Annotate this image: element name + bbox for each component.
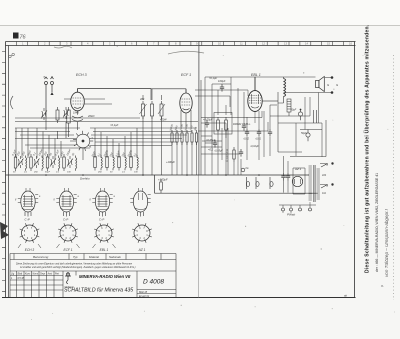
pin wires ECH 3 [18, 244, 41, 248]
wire AVC line 2 [15, 121, 198, 123]
terminal voltage tap 1 [282, 208, 285, 211]
svg-text:≈0,05μF: ≈0,05μF [206, 138, 216, 142]
coil IF [101, 155, 102, 170]
wire B plus rails [270, 93, 322, 158]
svg-text:20kΩ: 20kΩ [87, 114, 94, 118]
resistor bracket box [214, 113, 232, 135]
wire ECH3 anode to IFT [78, 88, 152, 90]
trimmer padder [18, 156, 24, 168]
earth terminal E [51, 77, 54, 92]
coil IF [125, 155, 126, 170]
band capacitor d3 [270, 177, 273, 189]
top margin strip [0, 0, 400, 26]
resistor load R7 [186, 130, 188, 145]
wire EBL mesh [201, 77, 264, 157]
coil winding [46, 154, 49, 171]
label row mid cluster [91, 149, 137, 158]
rectifier tube AZ1 [292, 176, 302, 186]
page fold crease [198, 41, 200, 298]
wire B+ left branch [278, 92, 302, 152]
wire coupling to grid [201, 111, 262, 138]
title block grid [10, 271, 176, 298]
terminal voltage tap 3 [299, 208, 302, 211]
coil winding [14, 154, 17, 171]
tube side view ECF 1 [56, 188, 76, 217]
svg-text:MINERVA-RADIO Wien VII: MINERVA-RADIO Wien VII [79, 274, 131, 279]
drawing frame border lines [2, 42, 356, 298]
svg-text:ECH 3: ECH 3 [76, 73, 87, 77]
svg-text:ab: ab [344, 294, 348, 298]
svg-text:EBL 1: EBL 1 [100, 248, 109, 252]
terminal mains 2 [331, 183, 333, 185]
tube side view ECH 3 [18, 188, 38, 217]
terminal voltage tap 4 [309, 208, 312, 211]
wire filter caps [284, 156, 289, 193]
wire IFT connections [143, 89, 162, 176]
left margin bracket [11, 96, 14, 109]
terminal mains 1 [331, 162, 333, 164]
chassis ground bus [6, 174, 310, 176]
coil IF [113, 155, 114, 170]
resistor R bleeder [160, 179, 163, 193]
svg-text:250: 250 [33, 172, 38, 174]
capacitor C 244 [242, 123, 246, 131]
capacitor C coupling [205, 120, 209, 128]
svg-text:≈0,05μF: ≈0,05μF [214, 150, 223, 153]
wire volume pot drop [227, 128, 229, 175]
wire stubs [238, 90, 255, 175]
svg-text:C↑P: C↑P [25, 218, 30, 222]
chassis lower band line [155, 175, 319, 193]
band capacitor d2 [256, 177, 259, 189]
resistor load R5 [176, 130, 178, 145]
capacitor C tone [239, 149, 243, 157]
pin labels gallery [15, 196, 116, 201]
wire long vertical at fold [198, 41, 200, 175]
capacitor 100uF grid [220, 84, 224, 92]
svg-text:C↑P: C↑P [63, 218, 68, 222]
svg-text:≈0,1μF: ≈0,1μF [209, 76, 217, 80]
trimmer padder [50, 156, 56, 168]
left margin blob [0, 222, 9, 239]
socket bottom view ECH 3 [20, 223, 40, 243]
IFT1 primary box [141, 101, 144, 119]
resistor load R6 [181, 130, 183, 145]
wire bus oscillator fan [15, 128, 197, 160]
corner registration blob [13, 33, 19, 39]
svg-text:Typ: Typ [73, 255, 78, 259]
svg-text:Fert: Fert [55, 272, 59, 275]
svg-text:Anst: Anst [47, 272, 53, 275]
svg-text:Diese Schaltanleitung ist gut: Diese Schaltanleitung ist gut aufzubewah… [364, 24, 371, 273]
title block tiny headers [11, 272, 59, 280]
terminal voltage tap 2 [290, 208, 293, 211]
socket bottom view AZ 1 [132, 223, 152, 243]
resistor divider [118, 154, 121, 171]
wire tone drops [234, 159, 241, 175]
tube ECF1 [180, 89, 192, 113]
svg-text:1846: 1846 [73, 111, 79, 115]
wire EBL bottom drops [247, 105, 270, 160]
mains switch arrow 2 [321, 185, 328, 189]
wire ECH3 side pins [64, 99, 112, 104]
tube side view AZ 1 [130, 188, 150, 217]
svg-text:☍: ☍ [8, 52, 15, 60]
svg-text:von Tülözep – Umspann-abgepr.!: von Tülözep – Umspann-abgepr.! [384, 208, 389, 277]
svg-text:76: 76 [20, 35, 27, 41]
frame ruler ticks top [17, 42, 344, 46]
IFT1 third box [160, 101, 163, 119]
svg-text:x.: x. [380, 283, 384, 288]
IFT1 arrow2 [158, 104, 165, 114]
electrolytic capacitor 50uF lower [306, 130, 310, 142]
svg-text:50pF: 50pF [45, 172, 51, 174]
svg-text:≈0,1μF: ≈0,1μF [110, 123, 119, 127]
wire top rail EBL [205, 76, 284, 78]
antenna terminal A [45, 77, 48, 116]
resistor R screen [225, 117, 228, 133]
coil winding [30, 154, 33, 171]
resistor divider [130, 154, 133, 171]
wire resistor drops [172, 142, 197, 175]
wire detector mesh 2 [195, 90, 268, 175]
svg-text:ist strafbar und wird gerichtl: ist strafbar und wird gerichtlich verfol… [20, 266, 136, 269]
svg-text:≈0,02: ≈0,02 [243, 138, 250, 141]
terminal dot top [331, 76, 334, 79]
svg-text:250: 250 [97, 172, 102, 174]
rotated resistor value labels [169, 123, 198, 131]
capacitor C cathode EBL [245, 129, 249, 137]
coil IF [137, 155, 138, 170]
svg-text:400/4: 400/4 [160, 117, 167, 121]
under row tiny labels [13, 172, 138, 174]
coil L2 box [67, 107, 70, 126]
scan specks [31, 46, 395, 320]
coil band [59, 156, 60, 171]
pencil scribble top [54, 46, 72, 48]
svg-text:Norm: Norm [33, 273, 39, 275]
svg-text:6.5.38: 6.5.38 [18, 278, 25, 280]
resistor load R8 [191, 130, 193, 145]
coil band [76, 156, 77, 171]
svg-text:220: 220 [322, 174, 327, 177]
coil band [42, 156, 43, 171]
socket bottom view EBL 1 [94, 223, 114, 243]
scan page edge right dotted [393, 55, 395, 300]
svg-text:EBL 1: EBL 1 [251, 73, 261, 77]
tube side view EBL 1 [92, 188, 112, 217]
svg-text:+100μF: +100μF [166, 160, 175, 164]
junction dot [300, 109, 302, 111]
capacitor C filter 2 [286, 173, 290, 181]
coil L1 box [56, 107, 59, 123]
svg-text:100μF: 100μF [218, 79, 226, 83]
svg-text:Blatt: Blatt [18, 272, 23, 275]
resistor R volume [233, 147, 235, 162]
speaker LS [316, 77, 325, 92]
pencil arc mark [168, 51, 204, 54]
tube ECH3 [71, 89, 85, 111]
socket bottom view ECF 1 [58, 223, 78, 243]
wire AVC line [15, 117, 140, 119]
wire ECF1 top [151, 89, 186, 100]
svg-text:Drehko: Drehko [80, 176, 90, 180]
wire EBL anode wire [262, 100, 278, 102]
wire OPT primary [284, 77, 316, 103]
wire selector bars [279, 205, 316, 208]
wire switch feeds [320, 164, 325, 185]
tube EBL1 [248, 77, 262, 112]
output section box bottom [290, 120, 326, 157]
svg-text:Nationale: Nationale [109, 255, 121, 259]
resistor load R9 [195, 130, 197, 145]
svg-text:Kons: Kons [25, 273, 31, 275]
svg-text:DRGM 1546 u.: DRGM 1546 u. [233, 122, 251, 126]
capacitor pair [314, 110, 317, 123]
svg-text:Gepr: Gepr [40, 273, 45, 275]
wire switch stem [70, 141, 83, 160]
terminal dot bottom [331, 91, 334, 94]
fuse Fe [241, 168, 245, 172]
resistor load R4 [171, 130, 173, 145]
svg-text:der : 466 — MINERVA-RADIO, WIE: der : 466 — MINERVA-RADIO, WIEN VII/62, … [375, 173, 379, 272]
svg-text:≈0,05μF: ≈0,05μF [203, 118, 213, 122]
band switch S1 rotary [73, 131, 93, 151]
label row tuning [12, 148, 76, 157]
trimmer padder [67, 156, 73, 168]
svg-text:D 4008: D 4008 [143, 279, 164, 286]
wire EBL left drops [218, 90, 226, 175]
wire EBL aux [270, 104, 277, 106]
field coil winding hatched [287, 99, 291, 112]
svg-text:ECH 3: ECH 3 [25, 248, 35, 252]
svg-text:ECF 1: ECF 1 [181, 73, 191, 77]
AZ1 enclosure [293, 168, 305, 194]
resistor R grid leak [217, 117, 220, 133]
trimmer C2 [63, 107, 69, 119]
svg-text:ECF 1: ECF 1 [64, 248, 73, 252]
wire AF section [201, 128, 240, 160]
electrolytic capacitor 50uF top [298, 110, 302, 121]
projection symbol [65, 272, 71, 284]
frame ruler ticks left [2, 52, 6, 292]
svg-text:Material: Material [89, 255, 99, 259]
IFT1 secondary box [150, 101, 153, 119]
padder capacitor under ECH3 [72, 116, 83, 121]
mains switch arrow 1 [321, 164, 328, 168]
notice box [10, 260, 176, 272]
svg-text:Ersatz für: Ersatz für [139, 295, 149, 298]
wire input section drops [46, 116, 69, 139]
IFT1 tuning arrow [140, 104, 147, 114]
svg-text:50μF: 50μF [291, 109, 297, 112]
resistor divider [106, 154, 109, 171]
capacitor C det [213, 140, 217, 148]
wire ECH3 cathode [77, 111, 79, 130]
resistor divider [94, 154, 97, 171]
svg-text:464: 464 [140, 97, 145, 101]
wire screen supply vertical [200, 80, 202, 175]
scan page edge top [0, 25, 400, 27]
wire ECF1 pins down [181, 110, 191, 127]
capacitor C filter 1 [281, 173, 285, 181]
mains transformer T1 windings [309, 165, 320, 202]
frame ruler numbers top [22, 42, 352, 46]
svg-text:Benennung: Benennung [33, 255, 49, 259]
svg-text:50μF: 50μF [301, 132, 307, 135]
svg-text:Blatt 28: Blatt 28 [139, 291, 148, 294]
wire selector drops [283, 202, 310, 213]
band capacitor d1 [246, 177, 249, 189]
svg-text:SCHALTBILD für Minerva 435: SCHALTBILD für Minerva 435 [64, 288, 133, 294]
trimmer C1 [41, 108, 47, 120]
svg-text:110: 110 [322, 192, 327, 195]
svg-text:+100μF: +100μF [158, 178, 168, 182]
chassis junction dots [45, 174, 260, 176]
earth wire with arrow [50, 92, 53, 95]
pin wires EBL 1 [93, 244, 116, 248]
svg-text:AZ 1: AZ 1 [138, 248, 146, 252]
svg-text:≈0,02μF: ≈0,02μF [250, 145, 259, 148]
svg-text:AZ 1: AZ 1 [294, 167, 302, 171]
wire speaker terminals [284, 78, 333, 93]
trimmer padder [34, 156, 40, 168]
svg-text:≈0,1: ≈0,1 [208, 148, 214, 152]
coil winding [63, 154, 66, 171]
parts list table frame [10, 254, 176, 298]
capacitor C out [268, 129, 272, 137]
coil band [26, 156, 27, 171]
svg-text:PWab: PWab [287, 213, 295, 217]
capacitor C bypass EBL [257, 129, 261, 137]
svg-text:≈0,01: ≈0,01 [255, 138, 262, 141]
output transformer T2 primary coil [284, 79, 286, 97]
pin wires ECF 1 [57, 244, 80, 248]
svg-text:C↑P: C↑P [99, 218, 104, 222]
